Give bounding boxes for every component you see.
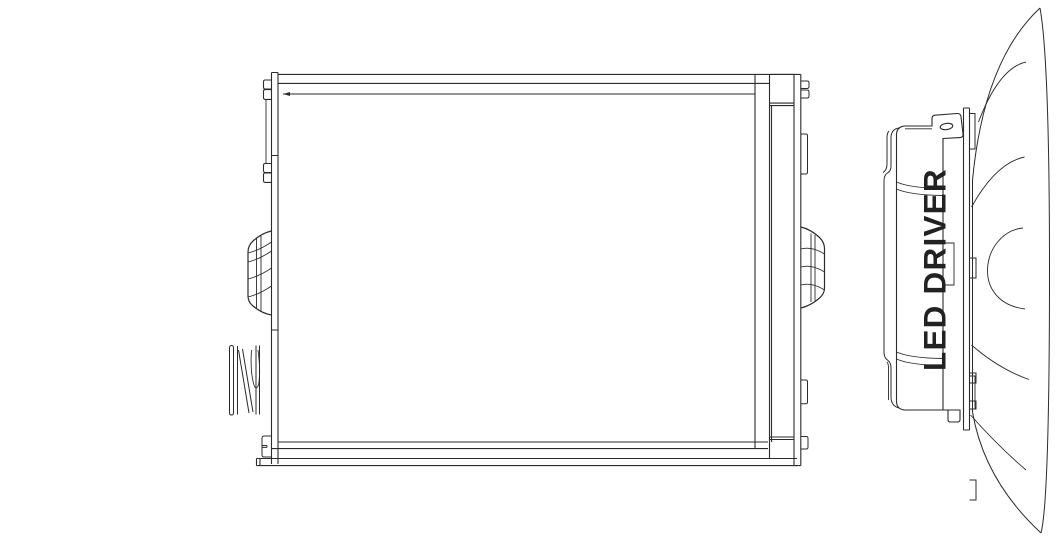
junction box frame — [230, 73, 825, 466]
box right wall pair — [770, 74, 772, 458]
driver right rail — [964, 108, 970, 430]
lamp vein 4 — [971, 415, 1027, 470]
box left wall — [272, 73, 279, 465]
box top edge lines — [278, 74, 794, 94]
LED driver and lamp — [883, 8, 1050, 533]
lamp right edge — [1040, 8, 1050, 533]
box left wall clip mid — [264, 164, 272, 183]
right bottom corner post — [770, 437, 795, 440]
box left wall inner line — [265, 99, 267, 163]
cable clamp at wire entry — [230, 346, 260, 416]
left wall cable boss — [248, 231, 272, 315]
elephant logo — [0, 0, 1, 1]
lamp hub — [988, 228, 1025, 309]
right top corner post — [770, 74, 795, 105]
right plate tall tab — [801, 134, 808, 174]
terminal blocks — [0, 0, 1, 1]
box left wall clips top — [264, 80, 272, 99]
driver band lines — [897, 182, 944, 196]
right wall cable boss — [801, 227, 825, 308]
lamp body outline — [973, 8, 1042, 533]
rail clips — [970, 258, 977, 500]
black wire bundle blocks — [0, 0, 1, 1]
labels — [0, 0, 1, 1]
box left wall bottom tab — [262, 436, 272, 457]
wires — [0, 0, 1, 1]
lamp vein 1 — [979, 62, 1027, 122]
lamp vein 3 — [972, 345, 1030, 380]
box bottom rail — [257, 459, 798, 466]
lamp vein 2 — [972, 157, 1025, 207]
driver top edge double — [905, 129, 943, 410]
top line arrow — [283, 92, 290, 96]
box bottom edge lines — [272, 442, 769, 449]
right plate clips top — [801, 81, 809, 98]
box right plate — [794, 74, 801, 465]
rail bottom foot — [970, 376, 976, 409]
box right inner wall — [754, 74, 756, 448]
svg-text:LED DRIVER: LED DRIVER — [917, 168, 953, 371]
rail top foot — [970, 114, 976, 150]
right plate bottom tabs — [801, 380, 808, 449]
driver top ear hole — [940, 123, 953, 131]
driver body outline — [897, 113, 964, 422]
driver inner small rect — [943, 243, 954, 285]
driver left corrugated edge — [883, 128, 899, 294]
